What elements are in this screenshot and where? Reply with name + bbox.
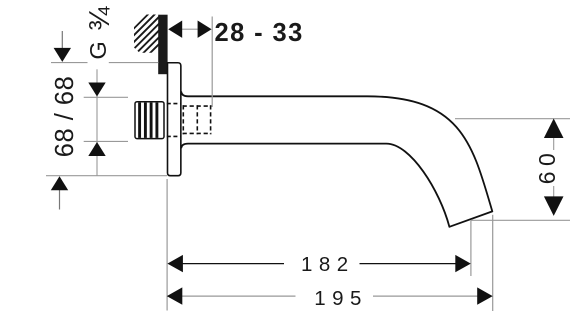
wall hatching — [128, 0, 165, 75]
60 dimension line — [553, 137, 555, 197]
svg-text:182: 182 — [301, 253, 355, 276]
bottom extension lines — [167, 179, 493, 311]
svg-text:68 / 68: 68 / 68 — [51, 76, 79, 157]
escutcheon plate — [168, 63, 181, 176]
hidden nut dashed box — [183, 105, 212, 134]
hidden thread dashes over escutcheon — [167, 104, 182, 137]
svg-text:195: 195 — [314, 287, 368, 310]
60 dimension extension lines — [455, 119, 570, 221]
182 dimension line — [181, 263, 459, 265]
28-33 extension line — [211, 17, 213, 108]
svg-text:60: 60 — [534, 148, 560, 185]
spout body — [181, 91, 492, 226]
68/68 arrows — [88, 83, 105, 97]
68/68 dimension line — [84, 69, 128, 175]
wall surface bar — [158, 15, 167, 74]
extension line escutcheon bottom — [46, 175, 167, 177]
svg-text:28 - 33: 28 - 33 — [215, 19, 304, 47]
arrow down to G3/4 line — [61, 31, 63, 49]
28-33 dimension — [182, 28, 198, 30]
arrow up to bottom line — [59, 190, 61, 210]
thread ribs — [140, 103, 157, 138]
extension line G3/4 level — [51, 62, 159, 64]
threaded connector — [135, 102, 164, 139]
195 dimension line — [180, 295, 480, 297]
